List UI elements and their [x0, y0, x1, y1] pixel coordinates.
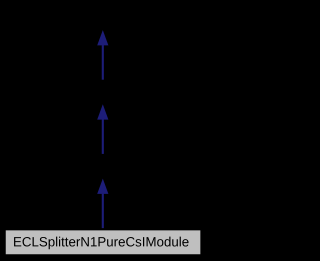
inheritance arrow middle	[97, 104, 108, 154]
inheritance arrow top (to hidden base class)	[97, 30, 108, 80]
class box ECLSplitterN1PureCsIModule	[5, 229, 202, 255]
class name label ECLSplitterN1PureCsIModule	[14, 237, 189, 250]
inheritance arrow bottom	[97, 179, 108, 229]
